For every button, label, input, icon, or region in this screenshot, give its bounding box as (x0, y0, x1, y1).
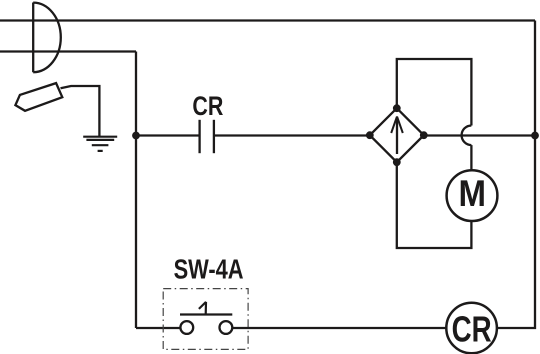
wire: from plug connector to ground (61, 86, 100, 137)
svg-text:CR: CR (192, 91, 223, 121)
wire: bottom loop from diamond bottom to motor bottom (397, 162, 472, 248)
wire crossover hop (vertical wire hops main rail) (462, 126, 472, 146)
AC receptacle bell (half-circle with flat side) (33, 3, 61, 73)
wire: main rail from diamond right vertex to right rail (424, 134, 535, 136)
wire: from hop down to motor top (470, 145, 472, 170)
capacitor CR plates (200, 120, 214, 153)
wire: left vertical rail (135, 52, 137, 329)
wire: main rail from capacitor to diamond left vertex (214, 134, 370, 136)
motor M (447, 170, 498, 221)
node: diamond right junction dot (420, 131, 428, 139)
node: junction dot left rail / main rail (132, 132, 140, 140)
wire L2: second supply line from left edge to left rail corner (0, 50, 136, 52)
wire: right vertical rail down to CR coil (497, 21, 535, 329)
wire: main rail from left rail to capacitor (136, 134, 200, 136)
svg-text:SW-4A: SW-4A (174, 253, 244, 284)
wire: bottom rail to switch left terminal (136, 327, 181, 329)
plug connector (pointed terminal) (15, 83, 62, 111)
ground (earth) symbol (83, 137, 117, 151)
pushbutton switch SW-4A: plunger stem (199, 302, 206, 315)
wire: bottom rail from switch right terminal to relay coil CR (232, 327, 446, 329)
node: diamond left junction dot (366, 131, 374, 139)
relay coil CR (446, 303, 497, 354)
node: diamond top junction dot (393, 104, 401, 112)
pushbutton switch SW-4A: actuator bar (180, 313, 232, 315)
wire L1: top supply line from left edge to top-right corner (0, 19, 535, 21)
switch SW-4A enclosure (dash-dot box) (163, 289, 248, 350)
pushbutton switch SW-4A: right contact (220, 321, 233, 334)
pushbutton switch SW-4A: left contact (180, 321, 193, 334)
current-operated device (diamond with up arrow) (370, 108, 424, 162)
wire: top loop from diamond top to crossover (397, 59, 472, 126)
svg-text:M: M (458, 173, 486, 214)
node: diamond bottom junction dot (393, 158, 401, 166)
node: junction dot right rail / main rail (531, 132, 539, 140)
svg-text:CR: CR (452, 309, 492, 350)
